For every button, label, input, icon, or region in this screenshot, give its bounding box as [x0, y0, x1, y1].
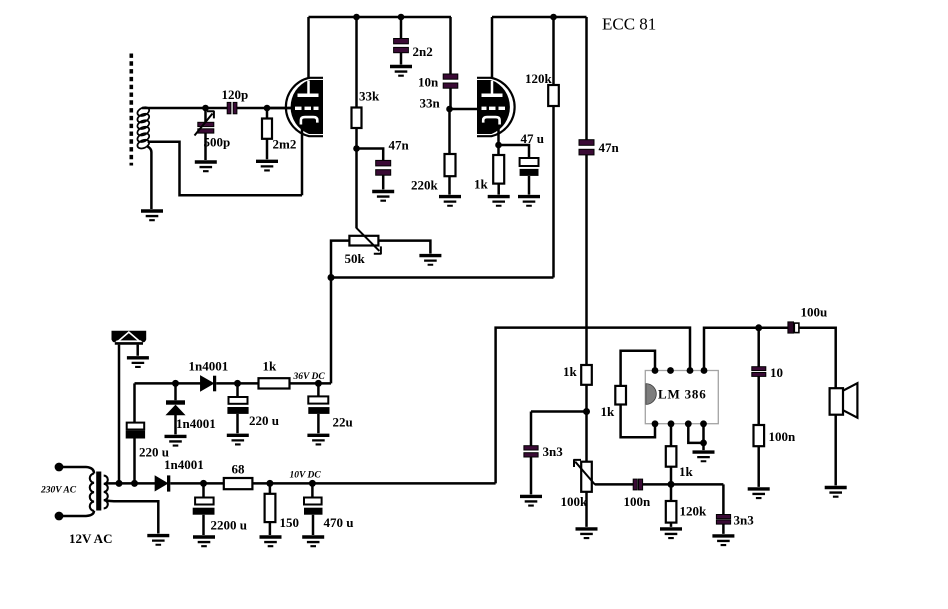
wire: secondary top lead [107, 482, 156, 485]
svg-text:47 u: 47 u [521, 131, 544, 146]
node: rail/2n2 [398, 14, 405, 21]
wire: pin4 to output rail [704, 328, 788, 371]
ground (47n) [372, 190, 394, 202]
svg-text:1n4001: 1n4001 [176, 416, 216, 431]
ground (2200u) [193, 535, 215, 547]
capacitor 47n (output coupling) [585, 17, 588, 365]
node: 220u tap [131, 480, 138, 487]
node: volume junction [583, 408, 590, 415]
svg-text:100n: 100n [624, 494, 652, 509]
resistor 1k (36V dropper) [259, 378, 290, 388]
svg-text:ECC 81: ECC 81 [602, 15, 656, 34]
svg-text:220 u: 220 u [249, 413, 279, 428]
svg-text:47n: 47n [599, 140, 620, 155]
wire: primary leads [59, 467, 94, 516]
svg-text:2n2: 2n2 [413, 44, 433, 59]
V1b plate lead [491, 17, 494, 79]
node: 500p junction [202, 105, 209, 112]
svg-text:1k: 1k [601, 404, 616, 419]
wire: 50k left terminal [331, 241, 349, 278]
svg-text:36V DC: 36V DC [293, 372, 326, 382]
wire: earphone left lead [118, 345, 121, 484]
antenna rod (dashed ferrite) [130, 54, 134, 166]
svg-text:3n3: 3n3 [543, 444, 564, 459]
resistor 1k (V1b cathode) [497, 145, 500, 195]
V1b cathode lead [497, 126, 500, 146]
svg-text:68: 68 [232, 462, 246, 477]
transformer primary winding [90, 474, 94, 511]
wire: L1 tap to cathode feedback [148, 142, 302, 196]
ground (100k) [576, 527, 598, 539]
svg-text:33k: 33k [359, 89, 380, 104]
svg-text:120p: 120p [222, 87, 249, 102]
wire: tuned circuit top (grid line) [142, 107, 291, 110]
resistor 2m2 [266, 108, 269, 159]
capacitor 220 u (AC side) [133, 383, 136, 483]
svg-text:50k: 50k [345, 251, 366, 266]
transformer secondary winding [104, 476, 108, 509]
speaker LS1 [830, 388, 843, 415]
node: 2200u tap [200, 480, 207, 487]
resistor 150 [269, 483, 272, 535]
capacitor 100u (output) [788, 322, 794, 333]
svg-text:150: 150 [280, 515, 300, 530]
node: 36V rail / vertical diode [172, 380, 179, 387]
ground (secondary) [147, 534, 169, 546]
svg-text:470 u: 470 u [324, 515, 354, 530]
diode D3 1n4001 (clamp) [174, 383, 177, 434]
V1b cathode [483, 117, 499, 124]
ground (1k) [488, 195, 510, 207]
wire: 10V rail [170, 482, 495, 485]
svg-text:120k: 120k [680, 504, 708, 519]
ground (2n2) [390, 65, 412, 77]
node: ground pins junction [700, 440, 707, 447]
earphone base bar [115, 342, 143, 345]
gain loop with resistor 1k [621, 351, 655, 438]
capacitor 3n3 (bias) [722, 484, 725, 534]
node: 150 tap [266, 480, 273, 487]
wire: speaker to ground [834, 415, 837, 486]
diode D2 1n4001 (36V) [201, 376, 213, 390]
ground (120k) [660, 527, 682, 539]
wire: junction to 3n3 [531, 410, 587, 413]
svg-text:1k: 1k [563, 364, 578, 379]
capacitor 100n (series) [633, 479, 637, 490]
resistor 120k [552, 17, 555, 278]
node: 36V rail / 220u [234, 380, 241, 387]
svg-text:1k: 1k [263, 359, 278, 374]
V1a grid dashes [295, 107, 302, 110]
coil L1 [136, 106, 151, 151]
potentiometer 50k [349, 236, 378, 246]
triode V1a body [291, 80, 323, 134]
V1b grid dashes [482, 107, 487, 110]
ground (22u) [307, 434, 329, 446]
node: V1b cathode [495, 142, 502, 149]
ground (clamp diode) [165, 435, 187, 447]
LM386 pins bottom [652, 420, 659, 427]
earphone body [112, 331, 147, 342]
ground (220k) [439, 195, 461, 207]
svg-text:1k: 1k [679, 464, 694, 479]
capacitor 3n3 (input) [530, 412, 533, 495]
node: output rail junction [755, 324, 762, 331]
node: B+ junction [328, 274, 335, 281]
svg-text:100u: 100u [801, 305, 828, 320]
ground (zobel) [748, 487, 770, 499]
svg-text:100k: 100k [561, 494, 589, 509]
wire: B+ feed horizontal [331, 276, 554, 279]
transformer primary terminal bottom [55, 512, 64, 521]
node: earphone tap [116, 480, 123, 487]
triode V1b body [477, 80, 510, 134]
resistor 1k (input) [581, 365, 592, 385]
wire: 100k wiper [595, 483, 633, 486]
capacitor 47u [499, 145, 530, 195]
resistor 33k [355, 17, 358, 149]
node: rail/33k [353, 14, 360, 21]
svg-text:220k: 220k [411, 178, 439, 193]
node: V1b grid [446, 106, 453, 113]
node: 36V rail / 22u [315, 380, 322, 387]
capacitor 2200 u [202, 483, 205, 535]
capacitor 47n (V1a plate) [357, 149, 384, 190]
svg-text:1n4001: 1n4001 [164, 457, 204, 472]
wire: V+ rail from 10V DC [496, 328, 690, 484]
capacitor 120p [227, 102, 231, 113]
diode D1 1n4001 (10V) [155, 477, 167, 491]
svg-text:2m2: 2m2 [273, 137, 297, 152]
svg-text:2200 u: 2200 u [211, 518, 247, 533]
LM386 pins top [652, 367, 659, 374]
wire: V1a plate rail [309, 16, 452, 19]
svg-text:100n: 100n [769, 429, 797, 444]
node: 470u tap [309, 480, 316, 487]
resistor 100n (zobel) [754, 425, 765, 446]
wire: 50k right terminal to ground [378, 241, 430, 254]
node: 33k/47n junction [353, 145, 360, 152]
svg-text:33n: 33n [420, 96, 441, 111]
ground (speaker) [825, 486, 847, 498]
transformer core [96, 472, 101, 511]
ground (3n3) [520, 495, 542, 507]
wire: B+ junction down to 36V rail [330, 278, 333, 384]
capacitor 22u [317, 383, 320, 433]
svg-text:10: 10 [770, 365, 783, 380]
wire: ground pins [688, 424, 703, 450]
wire: 36V rail [135, 382, 332, 385]
node: rail/120k [550, 14, 557, 21]
node: grid junction [264, 105, 271, 112]
resistor 220k [448, 109, 451, 195]
svg-text:230V AC: 230V AC [40, 486, 77, 496]
svg-text:1n4001: 1n4001 [189, 359, 229, 374]
transformer primary terminal top [55, 463, 64, 472]
svg-text:22u: 22u [333, 415, 353, 430]
resistor 68 [224, 478, 253, 489]
ground (500p) [195, 160, 217, 172]
resistor 120k (bias) [670, 484, 673, 527]
ground (2m2) [256, 160, 278, 172]
wire: L1 bottom to ground [148, 147, 152, 210]
svg-text:3n3: 3n3 [734, 513, 755, 528]
ground (50k) [419, 254, 441, 266]
svg-text:12V AC: 12V AC [69, 531, 112, 546]
capacitor 10 (zobel) [757, 328, 760, 425]
ground (470u) [302, 535, 324, 547]
triode V1a envelope [286, 78, 323, 136]
wire: junction to 50k wiper [355, 149, 358, 229]
wire: 100n to 3n3 [643, 483, 724, 486]
svg-text:47n: 47n [389, 138, 410, 153]
wire: secondary bottom lead to ground [107, 501, 159, 534]
wire: earphone right lead [136, 345, 139, 356]
svg-text:500p: 500p [204, 135, 231, 150]
capacitor 470 u [311, 483, 314, 535]
op-amp U1 LM386 body [645, 371, 718, 424]
svg-text:10V DC: 10V DC [290, 471, 322, 481]
V1a cathode [301, 117, 317, 124]
potentiometer 100k [585, 412, 588, 527]
svg-text:LM 386: LM 386 [658, 387, 707, 402]
V1a grid lead [267, 107, 292, 110]
ground (47u) [518, 195, 540, 207]
capacitor 2n2 [400, 17, 403, 65]
triode V1b envelope [477, 78, 515, 136]
svg-text:10n: 10n [418, 75, 439, 90]
wire: V1b plate rail [492, 16, 587, 19]
wire: 100u to speaker [799, 328, 836, 389]
ground (3n3 bias) [712, 534, 734, 546]
ground (LM386) [693, 450, 715, 462]
wire: V1a cathode lead [301, 125, 304, 196]
ground (150) [260, 535, 282, 547]
variable capacitor 500p [204, 108, 207, 160]
resistor 1k (LM386 input) [670, 424, 673, 485]
capacitor 10n (coupling) [449, 17, 452, 109]
capacitor 220 u (36V) [236, 383, 239, 433]
node: LM386 input junction [668, 481, 675, 488]
V1a plate lead [307, 17, 310, 79]
svg-text:120k: 120k [525, 71, 553, 86]
ground (220u 36V) [227, 434, 249, 446]
wire: V1b grid lead [450, 108, 479, 111]
ground (earphone) [127, 356, 149, 368]
ground (L1) [141, 209, 163, 221]
svg-text:1k: 1k [474, 177, 489, 192]
